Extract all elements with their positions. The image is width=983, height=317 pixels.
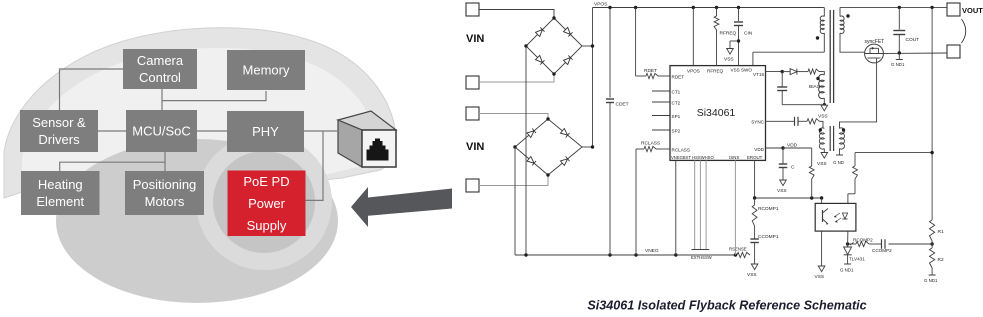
svg-text:RSENSE: RSENSE [729, 247, 747, 252]
svg-text:COUT: COUT [906, 37, 920, 43]
svg-text:TLV431: TLV431 [849, 257, 865, 262]
svg-text:Power: Power [248, 196, 286, 211]
svg-text:CCOMP1: CCOMP1 [758, 234, 779, 240]
svg-text:VSS: VSS [724, 57, 734, 63]
svg-text:VSS SWO: VSS SWO [731, 68, 753, 73]
svg-text:RFREQ: RFREQ [720, 31, 737, 37]
svg-text:VIN: VIN [466, 141, 484, 153]
svg-text:G ND: G ND [833, 160, 844, 165]
svg-text:syncFET: syncFET [865, 39, 885, 45]
svg-text:PoE PD: PoE PD [243, 174, 289, 189]
svg-text:RFREQ: RFREQ [707, 69, 724, 74]
svg-text:Positioning: Positioning [133, 177, 197, 192]
svg-text:Heating: Heating [38, 177, 83, 192]
svg-text:SP1: SP1 [672, 114, 681, 119]
svg-text:Motors: Motors [145, 194, 185, 209]
svg-text:VIN: VIN [466, 33, 484, 45]
svg-text:SP2: SP2 [672, 129, 681, 134]
svg-text:CT2: CT2 [672, 101, 681, 106]
svg-text:RCLASS: RCLASS [672, 148, 690, 153]
svg-text:VDD: VDD [754, 147, 764, 152]
svg-text:EROUT: EROUT [747, 155, 763, 160]
svg-text:VNEG: VNEG [645, 248, 659, 254]
svg-text:Element: Element [36, 194, 84, 209]
svg-text:VNEGBXT HSSWHSO: VNEGBXT HSSWHSO [671, 155, 714, 160]
svg-text:PHY: PHY [252, 124, 279, 139]
svg-text:ISNS: ISNS [729, 155, 739, 160]
svg-text:VPOS: VPOS [687, 69, 700, 74]
svg-text:Sensor &: Sensor & [32, 115, 86, 130]
svg-text:MCU/SoC: MCU/SoC [132, 124, 191, 139]
svg-text:CIN: CIN [744, 31, 753, 37]
svg-text:VSS: VSS [817, 161, 827, 167]
svg-text:Memory: Memory [243, 63, 290, 78]
svg-text:EXTHSSW: EXTHSSW [691, 255, 712, 260]
svg-text:VSS: VSS [818, 114, 828, 120]
svg-text:RDET: RDET [672, 75, 685, 80]
svg-text:VT15: VT15 [753, 72, 764, 77]
svg-text:C: C [791, 165, 795, 171]
svg-text:Drivers: Drivers [38, 132, 80, 147]
svg-text:Camera: Camera [137, 53, 184, 68]
svg-text:SYNC: SYNC [751, 120, 764, 125]
svg-text:RDET: RDET [644, 68, 657, 74]
svg-text:VSS: VSS [777, 188, 787, 194]
svg-text:RCLASS: RCLASS [641, 141, 660, 147]
svg-text:G ND1: G ND1 [924, 278, 938, 283]
svg-text:Control: Control [139, 70, 181, 85]
svg-text:Si34061: Si34061 [697, 107, 736, 119]
svg-text:BIAS: BIAS [809, 84, 820, 90]
svg-text:CDET: CDET [616, 102, 629, 108]
svg-text:CCOMP2: CCOMP2 [872, 248, 892, 253]
svg-text:G ND1: G ND1 [891, 62, 905, 67]
svg-text:VOUT: VOUT [962, 6, 983, 15]
svg-text:VSS: VSS [747, 272, 757, 278]
svg-text:Si34061 Isolated Flyback Refer: Si34061 Isolated Flyback Reference Schem… [587, 299, 866, 313]
svg-text:RCOMP1: RCOMP1 [758, 206, 779, 212]
svg-text:CT1: CT1 [672, 90, 681, 95]
svg-text:R1: R1 [938, 229, 944, 235]
svg-text:VSS: VSS [815, 274, 825, 280]
svg-text:G ND1: G ND1 [840, 268, 854, 273]
svg-text:Supply: Supply [247, 218, 287, 233]
svg-text:RCOMP2: RCOMP2 [853, 238, 873, 243]
svg-text:R2: R2 [938, 257, 944, 263]
svg-text:VPOS: VPOS [594, 2, 607, 8]
